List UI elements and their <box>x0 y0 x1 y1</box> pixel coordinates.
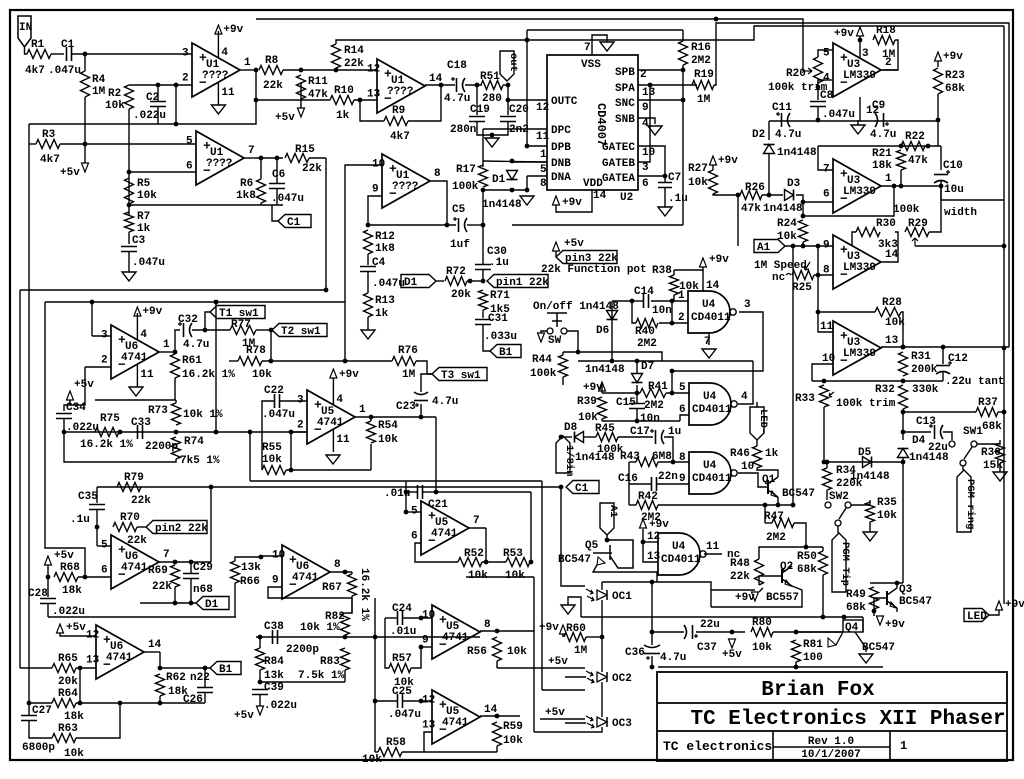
svg-text:R33: R33 <box>795 393 815 405</box>
svg-text:C1: C1 <box>287 217 301 229</box>
A1 flag <box>754 240 785 253</box>
svg-text:U4: U4 <box>702 299 716 311</box>
svg-text:DPB: DPB <box>551 142 571 154</box>
T3 sw1 flag <box>432 368 487 381</box>
junction C35 R70 <box>95 525 100 530</box>
junction R42 x793 <box>791 503 796 508</box>
junction R32 R37 <box>901 410 906 415</box>
R20 top to pin5 <box>818 50 826 57</box>
NAND gate U4c <box>689 452 731 494</box>
junction pin6 D3 <box>801 200 806 205</box>
+9v R39 wire <box>601 382 603 393</box>
resistor R12 <box>364 230 373 254</box>
pin3 22k flag <box>556 251 617 264</box>
title block row line 1 <box>657 702 1007 704</box>
bus y667 <box>658 666 883 668</box>
junction R62 bottom <box>158 701 163 706</box>
svg-text:OC1: OC1 <box>612 591 632 603</box>
junction D6 bottom <box>610 359 615 364</box>
R67 top <box>351 572 353 574</box>
svg-text:6: 6 <box>823 188 830 200</box>
svg-text:8: 8 <box>434 168 441 180</box>
capacitor C35 <box>89 505 105 510</box>
svg-text:R63: R63 <box>58 723 78 735</box>
resistor R84 <box>256 648 265 670</box>
rail y225 <box>368 224 456 226</box>
junction R31 top <box>901 345 906 350</box>
R74 bottom rail <box>64 432 176 462</box>
svg-text:PGM ring: PGM ring <box>964 479 976 529</box>
C28 top stub <box>47 577 49 597</box>
op-amp U3a <box>833 43 881 97</box>
resistor R18 <box>873 36 895 45</box>
svg-text:2M2: 2M2 <box>637 338 657 350</box>
svg-text:+9v: +9v <box>943 51 963 63</box>
wire R4 bottom to +5v node <box>84 54 86 71</box>
NAND gate U4b <box>689 383 731 425</box>
svg-text:U4: U4 <box>703 460 717 472</box>
capacitor C3 <box>121 247 137 252</box>
svg-text:2M2: 2M2 <box>766 532 786 544</box>
resistor R44 <box>559 355 568 377</box>
svg-text:R60: R60 <box>566 623 586 635</box>
R84 bottom <box>259 670 261 682</box>
svg-text:10k: 10k <box>64 748 84 760</box>
resistor R80 <box>751 628 773 637</box>
svg-text:5: 5 <box>101 540 108 552</box>
junction C36 bottom <box>650 665 655 670</box>
svg-text:1k: 1k <box>765 448 779 460</box>
diode D5 <box>863 457 872 468</box>
R24 bottom <box>802 242 804 246</box>
junction R55 right <box>289 468 294 473</box>
+9v U4d stub <box>643 529 658 562</box>
CD4007 pin13 wire SPA <box>638 84 697 86</box>
resistor R51 <box>481 81 503 90</box>
wire R1 to C1 <box>51 53 64 55</box>
svg-text:4.7u: 4.7u <box>660 652 686 664</box>
junction C26 top <box>203 666 208 671</box>
resistor R73 <box>172 403 181 425</box>
+9v U6a <box>134 307 141 316</box>
R58 left wire <box>375 751 378 753</box>
R39 bottom <box>601 419 603 421</box>
svg-text:1n4148: 1n4148 <box>777 147 817 159</box>
B1 flag bottom <box>210 662 241 675</box>
capacitor C21 <box>418 485 423 499</box>
svg-text:200k: 200k <box>911 364 938 376</box>
resistor R10 <box>330 96 354 105</box>
svg-text:22u: 22u <box>700 619 720 631</box>
svg-text:+5v: +5v <box>54 550 74 562</box>
svg-text:TC Electronics XII Phaser: TC Electronics XII Phaser <box>690 708 1005 731</box>
svg-text:R20: R20 <box>786 68 806 80</box>
junction R47 Q2 <box>804 545 809 550</box>
A1 flag stub <box>606 535 608 540</box>
C2 bottom stub <box>157 107 159 125</box>
R7 to C3 <box>128 232 130 244</box>
svg-text:R65: R65 <box>58 653 78 665</box>
junction D1 bottom <box>510 188 515 193</box>
resistor R7 <box>125 212 134 232</box>
svg-text:C3: C3 <box>132 235 146 247</box>
svg-text:100: 100 <box>803 652 823 664</box>
capacitor C5 <box>458 218 460 232</box>
+9v R27 <box>710 156 717 165</box>
C8 bottom to rail <box>817 107 819 121</box>
R33 bottom long <box>823 407 825 462</box>
resistor R68 <box>54 573 78 582</box>
U4a pin14 stub <box>702 270 704 291</box>
bus riser x250 <box>249 432 251 481</box>
svg-text:LM339: LM339 <box>843 70 876 82</box>
left wire to loop top <box>526 30 528 40</box>
R25 right to pin8 <box>814 274 833 276</box>
U1d out to C5 <box>428 181 447 225</box>
junction R69 top <box>173 560 178 565</box>
R71 to C31 <box>482 310 484 318</box>
switch SW2 contact b <box>845 502 851 508</box>
C1 flag mid <box>566 481 599 494</box>
svg-text:11: 11 <box>336 434 350 446</box>
junction C21 left <box>404 490 409 495</box>
svg-text:R27: R27 <box>688 163 708 175</box>
R30 left wire <box>852 232 856 246</box>
signal arrow OC2 <box>553 676 555 678</box>
+5v R68 stub <box>47 565 49 577</box>
svg-text:+5v: +5v <box>74 379 94 391</box>
svg-text:R70: R70 <box>120 512 140 524</box>
C24 left corner <box>384 618 386 645</box>
D6 top wire <box>612 300 632 302</box>
optocoupler OC1 <box>597 590 607 600</box>
junction R28 left <box>816 310 821 315</box>
junction R65 right <box>78 666 83 671</box>
junction SNC <box>681 98 686 103</box>
svg-text:LM339: LM339 <box>843 348 876 360</box>
left bus x20 <box>19 290 21 668</box>
svg-text:R66: R66 <box>240 576 260 588</box>
OC3 bottom wire <box>585 727 602 732</box>
svg-text:R62: R62 <box>166 672 186 684</box>
junction +5v C37 <box>730 630 735 635</box>
svg-text:9: 9 <box>679 473 686 485</box>
junction fb out <box>892 184 897 189</box>
C7 top stub <box>664 176 666 183</box>
out connector flag <box>500 51 514 81</box>
resistor R35 <box>866 502 875 522</box>
R64 left <box>29 702 52 704</box>
U6a pin2 loop <box>70 367 85 405</box>
U5c out wire <box>480 630 534 632</box>
T2 junction down <box>270 330 272 361</box>
box y290 <box>20 289 326 291</box>
svg-text:R19: R19 <box>694 69 714 81</box>
svg-text:R45: R45 <box>595 423 615 435</box>
capacitor C16 <box>652 477 657 491</box>
C17 right <box>664 437 673 462</box>
OC3 lower wire <box>534 731 585 733</box>
svg-text:C22: C22 <box>264 385 284 397</box>
svg-text:+9v: +9v <box>735 592 755 604</box>
svg-text:D4: D4 <box>912 435 926 447</box>
junction out flag <box>506 83 511 88</box>
svg-text:R50: R50 <box>797 551 817 563</box>
svg-text:????: ???? <box>392 181 418 193</box>
Q5 emitter wire <box>593 565 657 582</box>
svg-text:13: 13 <box>642 87 656 99</box>
U6b pin5 wire <box>97 545 111 547</box>
R66 bottom <box>234 583 236 617</box>
junction C36 top <box>650 630 655 635</box>
power +5v flag <box>82 163 89 172</box>
C26 top stub <box>204 668 206 688</box>
resistor R76 <box>392 357 416 366</box>
junction C8 top <box>816 85 821 90</box>
junction R21 out <box>899 184 904 189</box>
svg-text:+9v: +9v <box>649 519 669 531</box>
svg-text:C36: C36 <box>625 647 645 659</box>
junction C14 left <box>630 299 635 304</box>
R43 left <box>629 461 636 463</box>
capacitor C7 <box>658 183 672 188</box>
signal feedback top y19 <box>256 19 803 71</box>
C16 right <box>657 483 689 485</box>
ground pin7 <box>600 42 614 51</box>
R58 right loop <box>402 732 432 752</box>
LED- to R46 <box>756 440 758 446</box>
bus riser x531 <box>530 492 532 562</box>
junction bus y246 <box>1002 244 1007 249</box>
+5v arrow C37 <box>729 639 736 648</box>
title block divider x890 <box>889 731 891 761</box>
junction R82 C38 <box>343 635 348 640</box>
diode D3 <box>785 190 794 201</box>
junction y352 x578 <box>576 350 581 355</box>
T1 sw1 flag <box>210 306 265 319</box>
Q4 collector wire <box>862 617 864 632</box>
C36 column top <box>651 582 653 645</box>
ground Q4 <box>859 654 873 663</box>
capacitor C33 <box>138 425 143 439</box>
DNA gnd link <box>526 176 528 190</box>
svg-text:1M: 1M <box>402 369 416 381</box>
junction R38 pin1 <box>670 299 675 304</box>
R62 bottom <box>159 696 161 703</box>
+5v stub U1b <box>84 144 86 163</box>
column x483 to C30 <box>482 190 484 265</box>
svg-text:R44: R44 <box>532 354 552 366</box>
svg-text:7: 7 <box>163 549 170 561</box>
CD4007 pin2 wire SPB <box>638 69 683 71</box>
svg-text:+9v: +9v <box>223 24 243 36</box>
svg-text:6: 6 <box>679 404 686 416</box>
R38 bottom <box>673 295 675 301</box>
svg-text:R12: R12 <box>375 231 395 243</box>
rail y421 <box>602 420 680 422</box>
resistor R64 <box>52 699 76 708</box>
OC column 2 <box>601 682 603 717</box>
+5v C39 arrow <box>257 706 264 715</box>
U5a out wire <box>355 416 436 418</box>
resistor R49 <box>870 587 879 609</box>
CD4007 pin5 wire DNB <box>513 161 547 163</box>
svg-text:+5v: +5v <box>275 112 295 124</box>
R17 D1 top rail <box>483 161 547 162</box>
svg-text:4741: 4741 <box>442 717 469 729</box>
R59 bottom <box>496 746 498 752</box>
svg-text:+5v: +5v <box>545 707 565 719</box>
svg-text:R28: R28 <box>882 297 902 309</box>
junction C9 R23 <box>936 118 941 123</box>
resistor R83 <box>341 648 350 670</box>
optocoupler OC2 <box>597 672 607 682</box>
svg-text:1k: 1k <box>336 110 350 122</box>
junction R4 top <box>83 52 88 57</box>
svg-text:6: 6 <box>411 530 418 542</box>
svg-text:C39: C39 <box>264 682 284 694</box>
U5c pin9 wire <box>421 646 432 648</box>
svg-text:OC3: OC3 <box>612 718 632 730</box>
junction C29 rail <box>189 601 194 606</box>
C1 column <box>561 487 585 586</box>
svg-text:+9v: +9v <box>885 619 905 631</box>
R73 top <box>175 400 177 403</box>
R64 right <box>76 702 205 704</box>
svg-text:1uf: 1uf <box>450 239 470 251</box>
svg-text:C18: C18 <box>447 60 467 72</box>
ground C3 <box>122 272 136 281</box>
LED to +9v <box>989 610 999 615</box>
svg-text:9: 9 <box>823 240 830 252</box>
CD4007 pin3 wire GATEB <box>638 85 650 162</box>
svg-text:22k: 22k <box>263 80 283 92</box>
U3b pin6 wire <box>803 201 833 203</box>
U4a out wire <box>672 312 763 393</box>
rail y682 <box>260 681 345 683</box>
title block row line 2 <box>657 730 1007 732</box>
svg-text:C4: C4 <box>372 257 386 269</box>
svg-text:13: 13 <box>86 654 100 666</box>
svg-text:C16: C16 <box>618 473 638 485</box>
bottom rail U5a <box>291 469 371 471</box>
1/8in jack flag <box>556 436 570 473</box>
R26 down from junction <box>737 195 739 246</box>
svg-text:C25: C25 <box>392 686 412 698</box>
R46 bottom <box>757 468 778 477</box>
U4b out wire <box>738 361 753 404</box>
op-amp U5d <box>432 690 480 744</box>
svg-text:13: 13 <box>885 335 899 347</box>
svg-text:2: 2 <box>297 419 304 431</box>
junction C6 top <box>275 156 280 161</box>
D3 to corner <box>796 195 803 216</box>
C3 to gnd <box>128 252 130 273</box>
svg-text:.1u: .1u <box>489 257 509 269</box>
OC1 top wire <box>601 582 603 590</box>
svg-text:????: ???? <box>387 86 413 98</box>
op-amp U5a top stub <box>332 378 334 405</box>
U5a out right down <box>435 417 437 492</box>
x216 vert <box>215 302 217 432</box>
rail y381 <box>812 380 943 382</box>
junction R79 x211 <box>209 485 214 490</box>
C22 left loop <box>262 401 274 470</box>
title block outline <box>657 672 1007 761</box>
junction C29 top <box>189 560 194 565</box>
R28 left wire <box>818 311 875 313</box>
resistor R30 <box>856 228 880 237</box>
junction R63 top <box>118 701 123 706</box>
svg-text:+5v: +5v <box>548 656 568 668</box>
SW1 arm <box>964 447 972 459</box>
R45 to C17 <box>618 436 653 438</box>
svg-text:SNB: SNB <box>615 114 635 126</box>
resistor R63 <box>52 734 76 743</box>
svg-text:1/8in: 1/8in <box>563 445 575 477</box>
capacitor C11 <box>781 113 783 127</box>
svg-text:C9: C9 <box>872 100 885 112</box>
R42 left <box>629 504 636 506</box>
R81 bottom <box>795 662 797 667</box>
capacitor C2 <box>150 102 166 107</box>
svg-text:10u: 10u <box>944 184 964 196</box>
svg-text:SNC: SNC <box>615 98 635 110</box>
SW right wire <box>567 331 578 352</box>
svg-text:R54: R54 <box>378 420 398 432</box>
svg-text:4: 4 <box>336 394 343 406</box>
op-amp U1a bot stub <box>217 82 219 105</box>
junction C8 rail <box>816 118 821 123</box>
C12 bottom stub <box>942 371 944 381</box>
svg-text:R6: R6 <box>240 178 253 190</box>
svg-text:1n4148: 1n4148 <box>763 203 803 215</box>
R47 left wire <box>765 522 772 524</box>
svg-text:.047u: .047u <box>372 278 405 290</box>
resistor R15 <box>285 154 309 163</box>
+5v U6d stub <box>60 633 96 636</box>
NAND gate U4a <box>688 291 730 333</box>
U3b out wire <box>881 185 941 187</box>
OC2 lower wire <box>542 689 585 691</box>
wire IN to R1 <box>25 47 28 54</box>
R39 top wire <box>602 392 640 394</box>
junction R5/R7 <box>127 203 132 208</box>
R54 top <box>370 417 372 421</box>
svg-text:SW2: SW2 <box>829 491 849 503</box>
CD4007 pin7 wire <box>592 35 607 55</box>
svg-text:Q5: Q5 <box>585 540 599 552</box>
svg-text:????: ???? <box>202 70 228 82</box>
ground U6a area <box>129 387 143 396</box>
R80 right <box>773 631 843 633</box>
resistor R5 <box>125 178 134 204</box>
svg-text:68k: 68k <box>945 83 965 95</box>
R28 right down <box>901 312 903 347</box>
column x483 down <box>482 129 484 167</box>
R14 top wire to CD4007 loop <box>336 26 1004 44</box>
svg-text:+9v: +9v <box>142 306 162 318</box>
junction R19 riser <box>714 17 719 22</box>
svg-text:R22: R22 <box>905 131 925 143</box>
R44 bottom <box>562 377 564 385</box>
R15 right wire <box>309 157 326 159</box>
svg-text:C10: C10 <box>943 160 963 172</box>
resistor R56 <box>493 637 502 661</box>
C21 right <box>423 491 436 493</box>
+5v R68 <box>45 556 52 565</box>
svg-text:C35: C35 <box>78 491 98 503</box>
